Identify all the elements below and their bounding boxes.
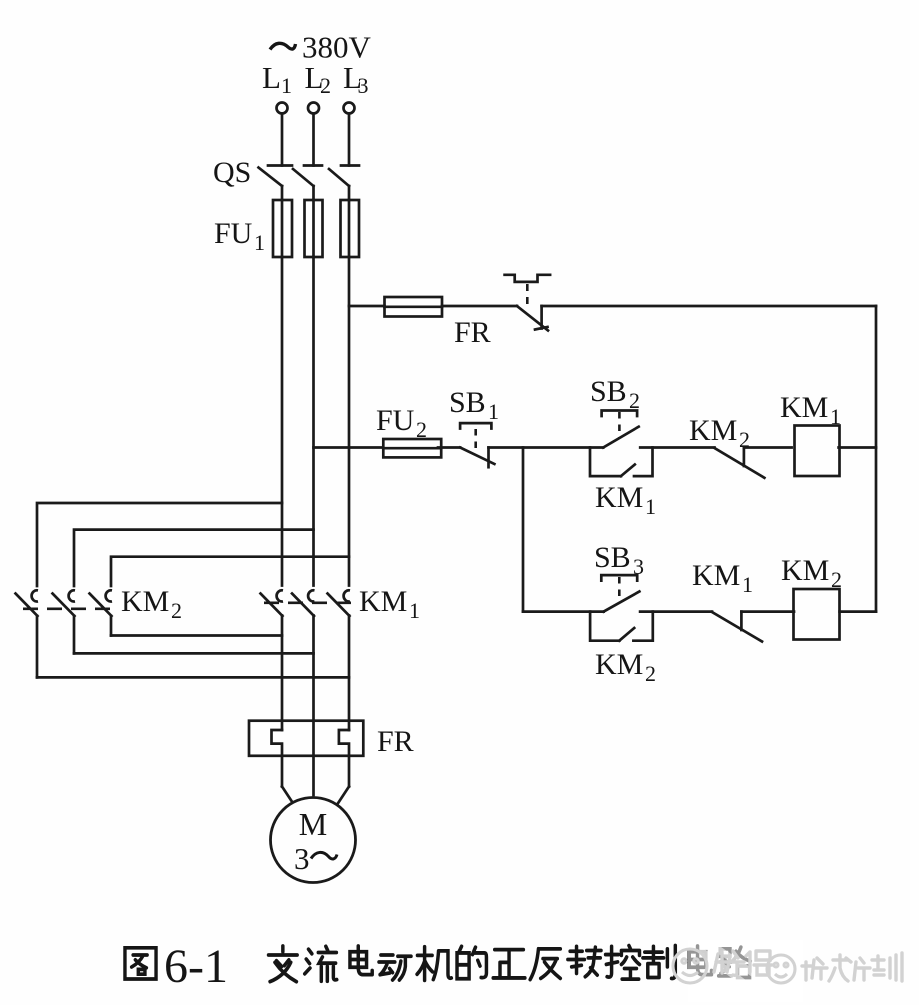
svg-text:SB: SB (449, 386, 486, 419)
svg-text:2: 2 (320, 73, 331, 98)
label KM2 latch (595, 648, 656, 686)
wire L3 below KM1 (348, 616, 351, 731)
right bus vertical (875, 306, 878, 612)
label SB3 (594, 541, 644, 579)
watermark text jicheng peixun (802, 953, 902, 981)
contactor KM1 main pole 3 (328, 590, 351, 616)
svg-text:KM: KM (781, 554, 829, 587)
contactor KM1 main pole 1 (261, 590, 284, 616)
wire L1 drop to QS (281, 114, 284, 166)
label KM1 (NC interlock) (692, 559, 753, 597)
wire phase L2 vertical (312, 257, 315, 586)
wire L3 drop to QS (348, 114, 351, 166)
caption figure number (125, 948, 156, 979)
pushbutton SB1 (NC stop) (460, 423, 494, 467)
fuse FU2 (383, 439, 441, 457)
wire SB1 to SB2 (489, 446, 604, 449)
svg-text:KM: KM (780, 391, 828, 424)
label KM1 coil (780, 391, 841, 429)
svg-text:KM: KM (359, 585, 407, 618)
svg-text:1: 1 (645, 494, 656, 519)
switch QS pole 1 (259, 166, 293, 201)
switch QS pole 2 (293, 166, 322, 201)
label SB1 (449, 386, 499, 424)
svg-text:SB: SB (594, 541, 631, 574)
watermark (673, 940, 902, 1002)
contact KM1 NC interlock (712, 612, 762, 642)
label KM2 (NC interlock) (689, 414, 750, 452)
wire coil KM2 to bus (840, 610, 876, 613)
svg-text:KM: KM (595, 481, 643, 514)
wire from pole2 to L2 (74, 652, 314, 655)
svg-text:2: 2 (645, 661, 656, 686)
label KM2 main (121, 585, 182, 623)
svg-text:1: 1 (488, 399, 499, 424)
watermark smiley 2 (767, 955, 795, 983)
fuse (control) on FR row (385, 297, 443, 317)
thermal element FR (249, 721, 414, 787)
linkage KM1 group (264, 601, 354, 604)
wire KM1 contact to coil KM2 (741, 610, 794, 613)
heater jog L1 (272, 730, 283, 787)
label KM1 latch (595, 481, 656, 519)
svg-text:FU: FU (214, 217, 253, 250)
label FU1 (214, 217, 265, 255)
wire branch L2 to left loop (74, 530, 314, 586)
wire coil KM1 to bus (839, 446, 876, 449)
coil KM2 (794, 589, 840, 640)
wire phase L1 vertical (281, 257, 284, 586)
label KM2 coil (781, 554, 842, 592)
wire rung1 left (314, 446, 383, 449)
label FU2 (376, 404, 427, 442)
wire rung2 left (523, 610, 604, 613)
svg-text:6-1: 6-1 (164, 940, 228, 993)
switch QS pole 3 (329, 166, 359, 201)
terminal circle L1 (277, 103, 288, 114)
svg-text:FU: FU (376, 404, 415, 437)
pushbutton SB3 (NO start) (601, 575, 639, 612)
junction drop to rung2 (522, 448, 525, 612)
contactor KM2 main pole 3 (90, 590, 113, 635)
wire FR contact to right bus (542, 305, 876, 308)
linkage KM2 group (23, 607, 119, 610)
terminal circle L2 (308, 103, 319, 114)
svg-text:KM: KM (692, 559, 740, 592)
svg-text:KM: KM (121, 585, 169, 618)
label 380V supply (270, 30, 372, 65)
watermark smiley 1 (673, 949, 707, 983)
node L3 (343, 60, 369, 98)
heater box FR (249, 721, 363, 756)
FR actuator bracket (505, 275, 550, 304)
contactor KM2 main pole 1 (16, 590, 39, 677)
wire branch L3 to left loop (111, 557, 349, 586)
pushbutton SB2 (NO start) (602, 411, 639, 448)
wire FR row left (349, 305, 385, 308)
heater jog L3 (339, 730, 349, 787)
wire L1 below KM1 (281, 616, 284, 731)
fuse FU1 pole 3 (341, 200, 360, 257)
wire L3 into motor (336, 787, 350, 808)
watermark text weixin (714, 951, 772, 975)
svg-text:FR: FR (377, 725, 414, 758)
fuse FU1 pole 1 (273, 200, 292, 257)
wire SB2 to KM2 contact (640, 446, 714, 449)
svg-text:KM: KM (595, 648, 643, 681)
wire crossover from pole3 to L1 (111, 634, 282, 637)
wire FU2 to SB1 (438, 446, 460, 449)
label KM1 main (359, 585, 420, 623)
label QS (213, 156, 251, 189)
wire KM2 contact to coil KM1 (744, 446, 792, 449)
wire SB3 to KM1 contact (640, 610, 712, 613)
svg-text:1: 1 (254, 230, 265, 255)
motor circle (271, 798, 356, 883)
control rung 2 (523, 541, 876, 686)
control row FR (349, 275, 876, 612)
svg-text:SB: SB (590, 375, 627, 408)
watermark erosion overlay (688, 940, 803, 1002)
reversing contacts (16, 503, 421, 795)
svg-text:KM: KM (689, 414, 737, 447)
latch contact KM1 (NO) (590, 448, 653, 477)
svg-text:M: M (299, 806, 327, 842)
svg-text:2: 2 (171, 598, 182, 623)
node L2 (305, 60, 332, 98)
contactor KM2 main pole 2 (53, 590, 76, 653)
latch contact KM2 (NO) (590, 612, 653, 641)
wire branch L1 to left loop (37, 503, 282, 586)
svg-text:L: L (262, 60, 281, 95)
contactor KM1 main pole 2 (292, 590, 315, 616)
control rung 1 (314, 375, 877, 612)
wire fuse to FR contact (442, 305, 517, 308)
label 3~ (294, 841, 337, 876)
contact KM2 NC interlock (715, 448, 765, 478)
thermal contact FR (NC) (517, 306, 548, 331)
wire crossover from pole1 to L3 (37, 676, 349, 679)
motor M (271, 787, 356, 883)
wire phase L3 vertical (348, 257, 351, 586)
caption text (269, 946, 298, 982)
wire L1 into motor (282, 787, 296, 808)
svg-text:1: 1 (742, 572, 753, 597)
svg-text:1: 1 (409, 598, 420, 623)
node L1 (262, 60, 292, 98)
svg-text:3: 3 (294, 841, 310, 876)
wire L2 drop to QS (312, 114, 315, 166)
svg-text:FR: FR (454, 316, 491, 349)
svg-text:1: 1 (281, 73, 292, 98)
terminal circle L3 (344, 103, 355, 114)
svg-text:3: 3 (358, 73, 369, 98)
fuse FU1 pole 2 (305, 200, 323, 257)
coil KM1 (795, 426, 840, 477)
wire L2 below KM1 (312, 616, 315, 796)
label SB2 (590, 375, 640, 413)
svg-text:QS: QS (213, 156, 251, 189)
